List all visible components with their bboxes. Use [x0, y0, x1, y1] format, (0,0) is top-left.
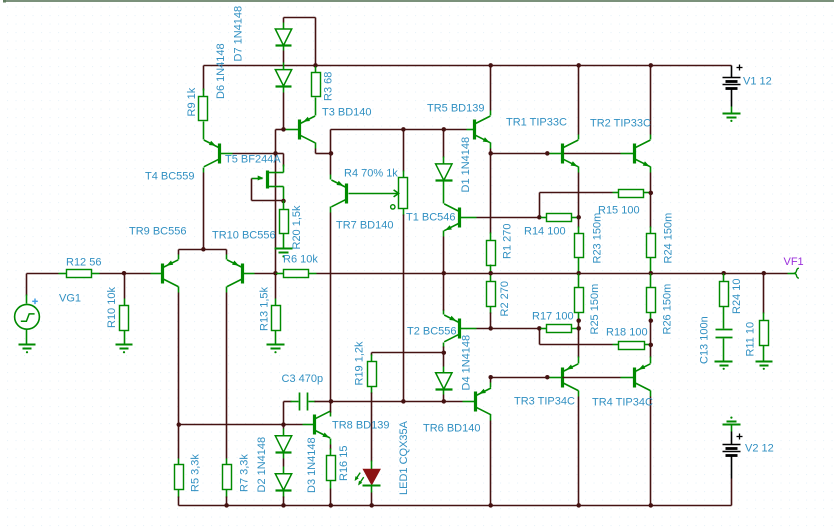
svg-text:TR5 BD139: TR5 BD139	[427, 102, 484, 114]
node btm R7 dot	[224, 503, 229, 508]
resistor R3	[312, 66, 321, 116]
wire LED bottom	[371, 493, 373, 506]
node TR5E dot	[488, 151, 493, 156]
wire TR3 base bus	[491, 377, 635, 379]
resistor R26	[647, 274, 656, 321]
wire D1 to T1	[443, 181, 445, 204]
wire TR8 base rail	[179, 424, 314, 426]
node R14L dot	[537, 215, 542, 220]
wire R26-R18	[650, 321, 652, 345]
label R12 56	[66, 256, 101, 268]
node R14R dot	[576, 215, 581, 220]
ground V1	[723, 114, 741, 123]
wire T2 collector	[443, 343, 445, 353]
wire T2C row	[372, 353, 444, 356]
diode D2	[275, 425, 291, 459]
transistor TR2	[635, 140, 651, 167]
node rail401 D4 dot	[442, 399, 447, 404]
wire TR1 collector	[578, 66, 580, 140]
label C3 470p	[282, 373, 324, 385]
svg-text:TR10 BC556: TR10 BC556	[212, 229, 276, 241]
wire D4 top	[443, 353, 445, 373]
wire TR6 base	[444, 401, 475, 403]
source VG1	[15, 299, 40, 330]
svg-text:R15 100: R15 100	[598, 204, 640, 216]
ground C13	[715, 362, 733, 370]
transistor TR1	[563, 140, 579, 167]
ground V2 inverted	[723, 417, 741, 425]
svg-text:R1 270: R1 270	[502, 224, 514, 259]
wire D2-D3	[283, 459, 285, 467]
node R15R dot	[649, 191, 654, 196]
node rail TR1 dot	[576, 63, 581, 68]
resistor R1	[487, 154, 496, 274]
resistor R7	[223, 459, 232, 506]
resistor R20	[280, 201, 289, 249]
label R2 270	[499, 281, 511, 316]
node btm TR4 dot	[649, 503, 654, 508]
svg-text:R20 1,5k: R20 1,5k	[291, 205, 303, 250]
node TR9C dot	[177, 422, 182, 427]
svg-text:R4 70% 1k: R4 70% 1k	[344, 167, 398, 179]
node R25B dot	[576, 318, 581, 323]
node R17L dot	[537, 326, 542, 331]
label TR3 TIP34C	[514, 395, 575, 407]
svg-text:C3 470p: C3 470p	[282, 373, 324, 385]
transistor T3	[300, 116, 316, 143]
wire T3 base to node	[276, 130, 284, 154]
diode D7	[275, 23, 291, 51]
svg-text:R6 10k: R6 10k	[283, 253, 318, 265]
node R26B dot	[649, 318, 654, 323]
svg-text:LED1 CQX35A: LED1 CQX35A	[398, 420, 410, 495]
label R18 100	[606, 326, 648, 338]
wire T2 base	[461, 328, 540, 330]
label R25 150m	[589, 284, 601, 335]
transistor T4	[204, 140, 220, 167]
node T3 base dot	[281, 127, 286, 132]
wire R15 leg	[540, 193, 613, 218]
resistor R12	[59, 270, 100, 278]
node rail TR2 dot	[649, 63, 654, 68]
node TR8 base dot	[281, 422, 286, 427]
wire feedback column	[275, 154, 277, 274]
node btm R16 dot	[329, 503, 334, 508]
ground R13	[267, 345, 285, 354]
wire C13 bottom	[723, 339, 725, 362]
svg-text:R26 150m: R26 150m	[662, 284, 674, 335]
node bus153 dot	[545, 151, 550, 156]
label V2 12	[745, 442, 774, 454]
label T3 BD140	[322, 106, 372, 118]
transistor TR4	[635, 364, 651, 391]
node btm LED dot	[369, 503, 374, 508]
svg-text:R16 15: R16 15	[338, 446, 350, 481]
wire TR4 collector	[650, 391, 652, 506]
diode D3	[275, 467, 291, 498]
label C13 100n	[699, 316, 711, 364]
label R1 270	[502, 224, 514, 259]
node TR3bus dot	[545, 375, 550, 380]
label R3 68	[323, 72, 335, 101]
resistor R9	[199, 89, 208, 140]
wire T1 emitter	[443, 231, 445, 274]
label R11 10	[745, 322, 757, 357]
svg-text:D2 1N4148: D2 1N4148	[256, 437, 268, 493]
label D7 1N4148	[233, 6, 245, 62]
label R4 70% 1k	[344, 167, 398, 179]
wire in to R12	[27, 273, 59, 275]
node out R24b dot	[649, 271, 654, 276]
wire R4 bottom	[403, 209, 405, 402]
svg-text:R13 1,5k: R13 1,5k	[259, 286, 271, 331]
resistor R16	[327, 456, 336, 506]
wire TR1 emitter	[578, 167, 580, 218]
node btm TR6 dot	[488, 503, 493, 508]
wire D1 top	[443, 130, 445, 164]
resistor R17	[541, 325, 579, 333]
wire V1 to ground	[731, 107, 733, 114]
label TR4 TIP34C	[592, 396, 653, 408]
svg-text:D4 1N4148: D4 1N4148	[461, 335, 473, 391]
svg-text:R9 1k: R9 1k	[186, 87, 198, 116]
label R26 150m	[662, 284, 674, 335]
wire top rail	[204, 65, 732, 67]
wire T2 emitter	[443, 274, 445, 315]
wire TR8 collector	[330, 402, 332, 417]
svg-text:V1 12: V1 12	[743, 75, 772, 87]
svg-text:T4 BC559: T4 BC559	[145, 170, 195, 182]
resistor R25	[575, 274, 584, 321]
svg-text:T1 BC546: T1 BC546	[406, 211, 456, 223]
label TR10 BC556	[212, 229, 276, 241]
battery V1	[723, 65, 743, 107]
svg-text:R19 1,2k: R19 1,2k	[354, 341, 366, 386]
label TR5 BD139	[427, 102, 484, 114]
node mid dot A	[273, 151, 278, 156]
label R13 1,5k	[259, 286, 271, 331]
wire rail to R9	[203, 66, 205, 91]
ground R10	[116, 345, 133, 354]
node R18R dot	[649, 343, 654, 348]
node out T1T2 dot	[442, 271, 447, 276]
svg-text:R7 3,3k: R7 3,3k	[239, 454, 251, 492]
transistor TR8	[315, 411, 331, 438]
wire T1 base	[461, 217, 540, 219]
top toolbar edge	[3, 0, 834, 3]
wire TR9 collector	[178, 287, 180, 425]
svg-text:V2 12: V2 12	[745, 442, 774, 454]
label D4 1N4148	[461, 335, 473, 391]
wire TR3 emitter col	[578, 329, 580, 364]
svg-text:TR9 BC556: TR9 BC556	[129, 225, 186, 237]
svg-text:TR6 BD140: TR6 BD140	[423, 422, 480, 434]
svg-text:VG1: VG1	[59, 292, 81, 304]
svg-text:R11 10: R11 10	[745, 322, 757, 357]
node tail dot	[201, 247, 206, 252]
wire T4 collector	[203, 168, 205, 250]
resistor R13	[272, 274, 281, 345]
wire T3 base lead	[285, 129, 299, 131]
resistor R10	[120, 274, 129, 345]
label V1 12	[743, 75, 772, 87]
label VG1	[59, 292, 81, 304]
node rail401 R4 dot	[401, 399, 406, 404]
wire output bus	[317, 273, 788, 275]
label TR8 BD139	[332, 419, 389, 431]
transistor TR3	[563, 364, 579, 391]
wire VG1 bottom	[26, 329, 28, 345]
svg-text:T3 BD140: T3 BD140	[322, 106, 372, 118]
svg-text:D7 1N4148: D7 1N4148	[233, 6, 245, 62]
label TR7 BD140	[336, 219, 393, 231]
transistor TR5	[475, 116, 491, 143]
battery V2	[723, 432, 743, 479]
wire TR6 emitter	[490, 378, 492, 388]
wire TR3 collector	[578, 391, 580, 506]
wire TR5 collector	[490, 66, 492, 116]
label VF1	[784, 256, 804, 268]
diode D1	[436, 164, 453, 181]
wire TR7 emitter	[330, 154, 332, 180]
wire D7-D6	[283, 51, 285, 63]
svg-text:TR1 TIP33C: TR1 TIP33C	[506, 116, 567, 128]
node bus R4 dot	[401, 127, 406, 132]
ground VG1	[19, 345, 36, 354]
resistor R23	[575, 218, 584, 274]
svg-text:T5 BF244A: T5 BF244A	[225, 153, 281, 165]
wire TR2 emitter	[650, 167, 652, 193]
label R5 3,3k	[190, 454, 202, 492]
resistor R6	[276, 270, 317, 278]
label T4 BC559	[145, 170, 195, 182]
wire TR8 emitter	[330, 439, 332, 456]
node out R23 dot	[576, 271, 581, 276]
node btm TR3 dot	[576, 503, 581, 508]
svg-text:TR3 TIP34C: TR3 TIP34C	[514, 395, 575, 407]
label R10 10k	[106, 287, 118, 328]
ground R20	[275, 249, 293, 258]
svg-text:R24 150m: R24 150m	[663, 213, 675, 264]
svg-text:T2 BC556: T2 BC556	[407, 325, 457, 337]
label R14 100	[524, 225, 566, 237]
wire C3 right	[309, 401, 331, 403]
label R6 10k	[283, 253, 318, 265]
wire T5 gate	[252, 179, 284, 201]
wire R4 top	[403, 130, 405, 178]
transistor T1	[444, 204, 459, 231]
wire VG1 top	[26, 274, 28, 304]
svg-text:TR7 BD140: TR7 BD140	[336, 219, 393, 231]
svg-text:TR8 BD139: TR8 BD139	[332, 419, 389, 431]
resistor R11	[760, 274, 769, 362]
wire R12 to TR9	[100, 273, 163, 275]
label R24 150m	[663, 213, 675, 264]
node R2B dot	[488, 326, 493, 331]
svg-text:R12 56: R12 56	[66, 256, 101, 268]
wire tail to TR10	[204, 250, 227, 260]
svg-text:TR4 TIP34C: TR4 TIP34C	[592, 396, 653, 408]
wire R25-R17	[578, 321, 580, 329]
label R19 1,2k	[354, 341, 366, 386]
wire TR2 collector	[650, 66, 652, 140]
wire TR10 base	[243, 273, 276, 275]
transistor T2	[444, 315, 459, 342]
wire C3 left	[284, 402, 299, 425]
wire D3 bottom	[283, 497, 285, 506]
capacitor C3	[300, 393, 308, 411]
label D1 1N4148	[460, 137, 472, 193]
label R9 1k	[186, 87, 198, 116]
potentiometer R4	[349, 178, 408, 210]
svg-text:R25 150m: R25 150m	[589, 284, 601, 335]
resistor R18	[613, 342, 651, 350]
svg-text:VF1: VF1	[784, 256, 804, 268]
led LED1	[355, 469, 381, 492]
node T5 source dot	[281, 199, 286, 204]
wire D6 to T3 base	[283, 93, 285, 130]
wire bottom rail	[179, 505, 732, 507]
wire D4 bottom	[443, 390, 445, 402]
svg-text:C13 100n: C13 100n	[699, 316, 711, 364]
transistor TR7	[331, 180, 346, 207]
diode D6	[275, 63, 291, 93]
label T5 BF244A	[225, 153, 281, 165]
resistor R24z	[720, 274, 729, 329]
svg-text:D6 1N4148: D6 1N4148	[215, 43, 227, 99]
svg-text:D3 1N4148: D3 1N4148	[306, 437, 318, 493]
terminal VF1	[788, 268, 799, 278]
svg-text:R23 150m: R23 150m	[592, 213, 604, 264]
wire V2 bottom	[731, 479, 733, 506]
wire out-stage base bus	[491, 153, 635, 155]
label R7 3,3k	[239, 454, 251, 492]
node T3C dot	[329, 151, 334, 156]
label R24 10	[731, 279, 743, 314]
node bus D1 dot	[442, 127, 447, 132]
wire TR4 emitter col	[650, 345, 652, 364]
wire TR5 emitter	[490, 143, 492, 154]
svg-text:R17 100: R17 100	[532, 310, 574, 322]
label LED1 CQX35A	[398, 420, 410, 495]
transistor TR10	[227, 260, 243, 287]
wire node to T5 drain	[276, 154, 284, 173]
wire D7 top loop	[284, 18, 316, 66]
label TR9 BC556	[129, 225, 186, 237]
label TR2 TIP33C	[590, 117, 651, 129]
node btm D3 dot	[281, 503, 286, 508]
wire R18 leg	[540, 329, 613, 345]
capacitor C13	[716, 330, 733, 338]
svg-text:TR2 TIP33C: TR2 TIP33C	[590, 117, 651, 129]
label R20 1,5k	[291, 205, 303, 250]
resistor R19	[368, 355, 377, 394]
transistor TR6	[476, 388, 492, 415]
label R15 100	[598, 204, 640, 216]
node out zobel dot	[721, 271, 726, 276]
svg-text:R5 3,3k: R5 3,3k	[190, 454, 202, 492]
wire R19 to LED	[371, 393, 373, 470]
wire TR10 collector	[226, 287, 228, 459]
node rail-R3 dot	[313, 63, 318, 68]
node rail TR5 dot	[488, 63, 493, 68]
resistor R24b	[647, 193, 656, 274]
resistor R15	[613, 190, 651, 198]
node rail401 TR8 dot	[329, 399, 334, 404]
svg-text:R18 100: R18 100	[606, 326, 648, 338]
wire TR9 emitter	[179, 250, 204, 260]
wire TR7 collector	[330, 207, 332, 402]
svg-text:R3 68: R3 68	[323, 72, 335, 101]
node T2C dot	[442, 350, 447, 355]
label R17 100	[532, 310, 574, 322]
node TR6E dot	[488, 375, 493, 380]
label D6 1N4148	[215, 43, 227, 99]
resistor R5	[175, 425, 184, 506]
diode D4	[436, 373, 453, 390]
transistor TR9	[163, 260, 179, 287]
resistor R14	[541, 214, 579, 222]
label R23 150m	[592, 213, 604, 264]
svg-text:R10 10k: R10 10k	[106, 287, 118, 328]
wire T4 base	[221, 153, 276, 155]
label T2 BC556	[407, 325, 457, 337]
node out R1R2 dot	[488, 271, 493, 276]
label D3 1N4148	[306, 437, 318, 493]
svg-text:R2 270: R2 270	[499, 281, 511, 316]
resistor R2	[487, 274, 496, 329]
wire C3 rail	[331, 401, 444, 403]
label TR6 BD140	[423, 422, 480, 434]
label TR1 TIP33C	[506, 116, 567, 128]
label T1 BC546	[406, 211, 456, 223]
wire TR6 collector	[490, 415, 492, 506]
label R16 15	[338, 446, 350, 481]
ground R11	[756, 362, 773, 370]
wire T3 collector	[316, 143, 331, 154]
svg-text:D1 1N4148: D1 1N4148	[460, 137, 472, 193]
node out R11 dot	[762, 271, 767, 276]
node R6 dot	[273, 271, 278, 276]
svg-text:R14 100: R14 100	[524, 225, 566, 237]
wire T5 source	[283, 187, 285, 201]
label D2 1N4148	[256, 437, 268, 493]
svg-text:R24 10: R24 10	[731, 279, 743, 314]
wire TR5 base bus	[331, 130, 475, 154]
node R10 dot	[122, 271, 127, 276]
node R17R dot	[576, 326, 581, 331]
jfet T5	[252, 171, 284, 189]
wire V2 top	[731, 425, 733, 432]
